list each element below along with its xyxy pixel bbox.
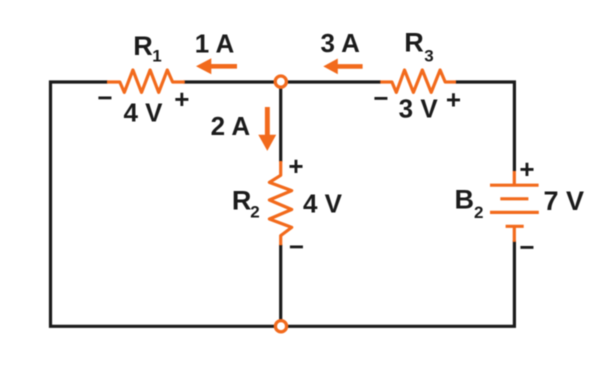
current arrow 3 A: [323, 59, 362, 75]
current arrow 1 A: [196, 58, 237, 74]
wire: outer loop (left, bottom, lower-right segments): [51, 82, 515, 326]
battery B2 plate short bottom: [506, 225, 524, 228]
svg-text:4 V: 4 V: [123, 97, 163, 127]
svg-text:1 A: 1 A: [195, 28, 235, 58]
svg-text:B: B: [455, 185, 475, 215]
battery B2 plate short upper: [500, 197, 528, 200]
svg-text:+: +: [519, 154, 534, 184]
battery B2 bottom stub: [513, 226, 516, 242]
battery B2 plate long top: [490, 184, 539, 187]
svg-text:R: R: [232, 186, 252, 216]
svg-text:1: 1: [152, 47, 161, 66]
svg-text:3: 3: [424, 46, 433, 65]
resistor R1: [107, 70, 185, 92]
wire: top-right corner down to battery: [456, 82, 515, 171]
svg-text:+: +: [446, 85, 461, 115]
wire: middle branch lower segment: [279, 245, 282, 327]
node B (bottom junction): [275, 321, 286, 332]
svg-text:R: R: [133, 31, 153, 61]
svg-text:−: −: [289, 232, 304, 262]
current arrow 2 A: [258, 107, 276, 151]
svg-text:−: −: [373, 83, 388, 113]
battery B2 top stub: [513, 171, 516, 185]
battery B2 plate long lower: [490, 211, 539, 214]
svg-text:4 V: 4 V: [303, 189, 343, 219]
svg-text:3 V: 3 V: [399, 94, 439, 124]
svg-text:2: 2: [250, 203, 259, 222]
node A (top junction): [275, 76, 286, 87]
svg-text:R: R: [404, 28, 424, 58]
wire: top between R1 and R3 through node A: [184, 80, 381, 83]
wire: middle branch upper segment: [279, 82, 282, 162]
resistor R3: [380, 70, 456, 92]
resistor R2: [269, 161, 291, 245]
svg-text:3 A: 3 A: [320, 28, 360, 58]
svg-text:−: −: [519, 232, 534, 262]
svg-text:−: −: [97, 83, 112, 113]
svg-text:+: +: [288, 151, 303, 181]
svg-text:2: 2: [474, 203, 483, 222]
svg-text:+: +: [174, 84, 189, 114]
svg-text:7 V: 7 V: [544, 186, 585, 216]
svg-text:2 A: 2 A: [211, 111, 251, 141]
